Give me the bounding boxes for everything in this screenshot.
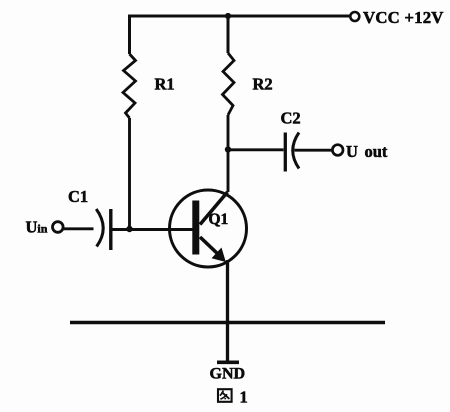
capacitor C2 left plate (284, 133, 287, 172)
wire R1 bottom lead to base node (128, 118, 131, 230)
transistor Q1 base bar (192, 201, 199, 255)
svg-text:R2: R2 (253, 75, 273, 94)
svg-text:GND: GND (210, 366, 246, 383)
svg-text:1: 1 (240, 388, 248, 407)
svg-text:VCC +12V: VCC +12V (363, 8, 444, 27)
wire ground rail (70, 321, 385, 324)
wire top VCC rail (130, 15, 351, 18)
capacitor C1 right plate (109, 209, 112, 250)
wire R1 top lead (128, 15, 131, 55)
wire C1 to transistor base (113, 228, 193, 231)
transistor Q1 emitter arrow (212, 248, 226, 263)
caption figure 1 (218, 388, 248, 407)
transistor Q1 collector stroke (200, 192, 228, 225)
transistor Q1 emitter stroke (200, 237, 220, 256)
label U out (346, 142, 388, 161)
wire C2 to output terminal (295, 149, 333, 152)
terminal Uin (53, 222, 64, 233)
capacitor C1 left plate (96, 209, 103, 247)
node base junction (126, 226, 132, 232)
svg-text:U: U (346, 142, 358, 161)
wire Uin to C1 (64, 227, 94, 230)
wire emitter to ground (226, 260, 229, 362)
node collector junction (225, 146, 231, 152)
node junction top of R2 (225, 13, 231, 19)
svg-text:Q1: Q1 (209, 211, 229, 228)
svg-text:C2: C2 (281, 109, 301, 128)
ground bar symbol (217, 360, 239, 364)
capacitor C2 right plate (293, 133, 299, 169)
terminal U out (332, 145, 343, 156)
wire R2 top lead (227, 16, 230, 53)
svg-text:R1: R1 (155, 75, 175, 94)
transistor Q1 circle (170, 190, 247, 267)
terminal VCC (350, 12, 359, 21)
resistor R1 (123, 54, 136, 118)
wire collector node to transistor (227, 150, 230, 193)
wire R2 bottom lead to collector node (227, 115, 230, 150)
resistor R2 (223, 53, 235, 115)
wire collector node to C2 (228, 148, 284, 151)
svg-text:C1: C1 (68, 187, 88, 206)
svg-text:out: out (365, 142, 388, 161)
